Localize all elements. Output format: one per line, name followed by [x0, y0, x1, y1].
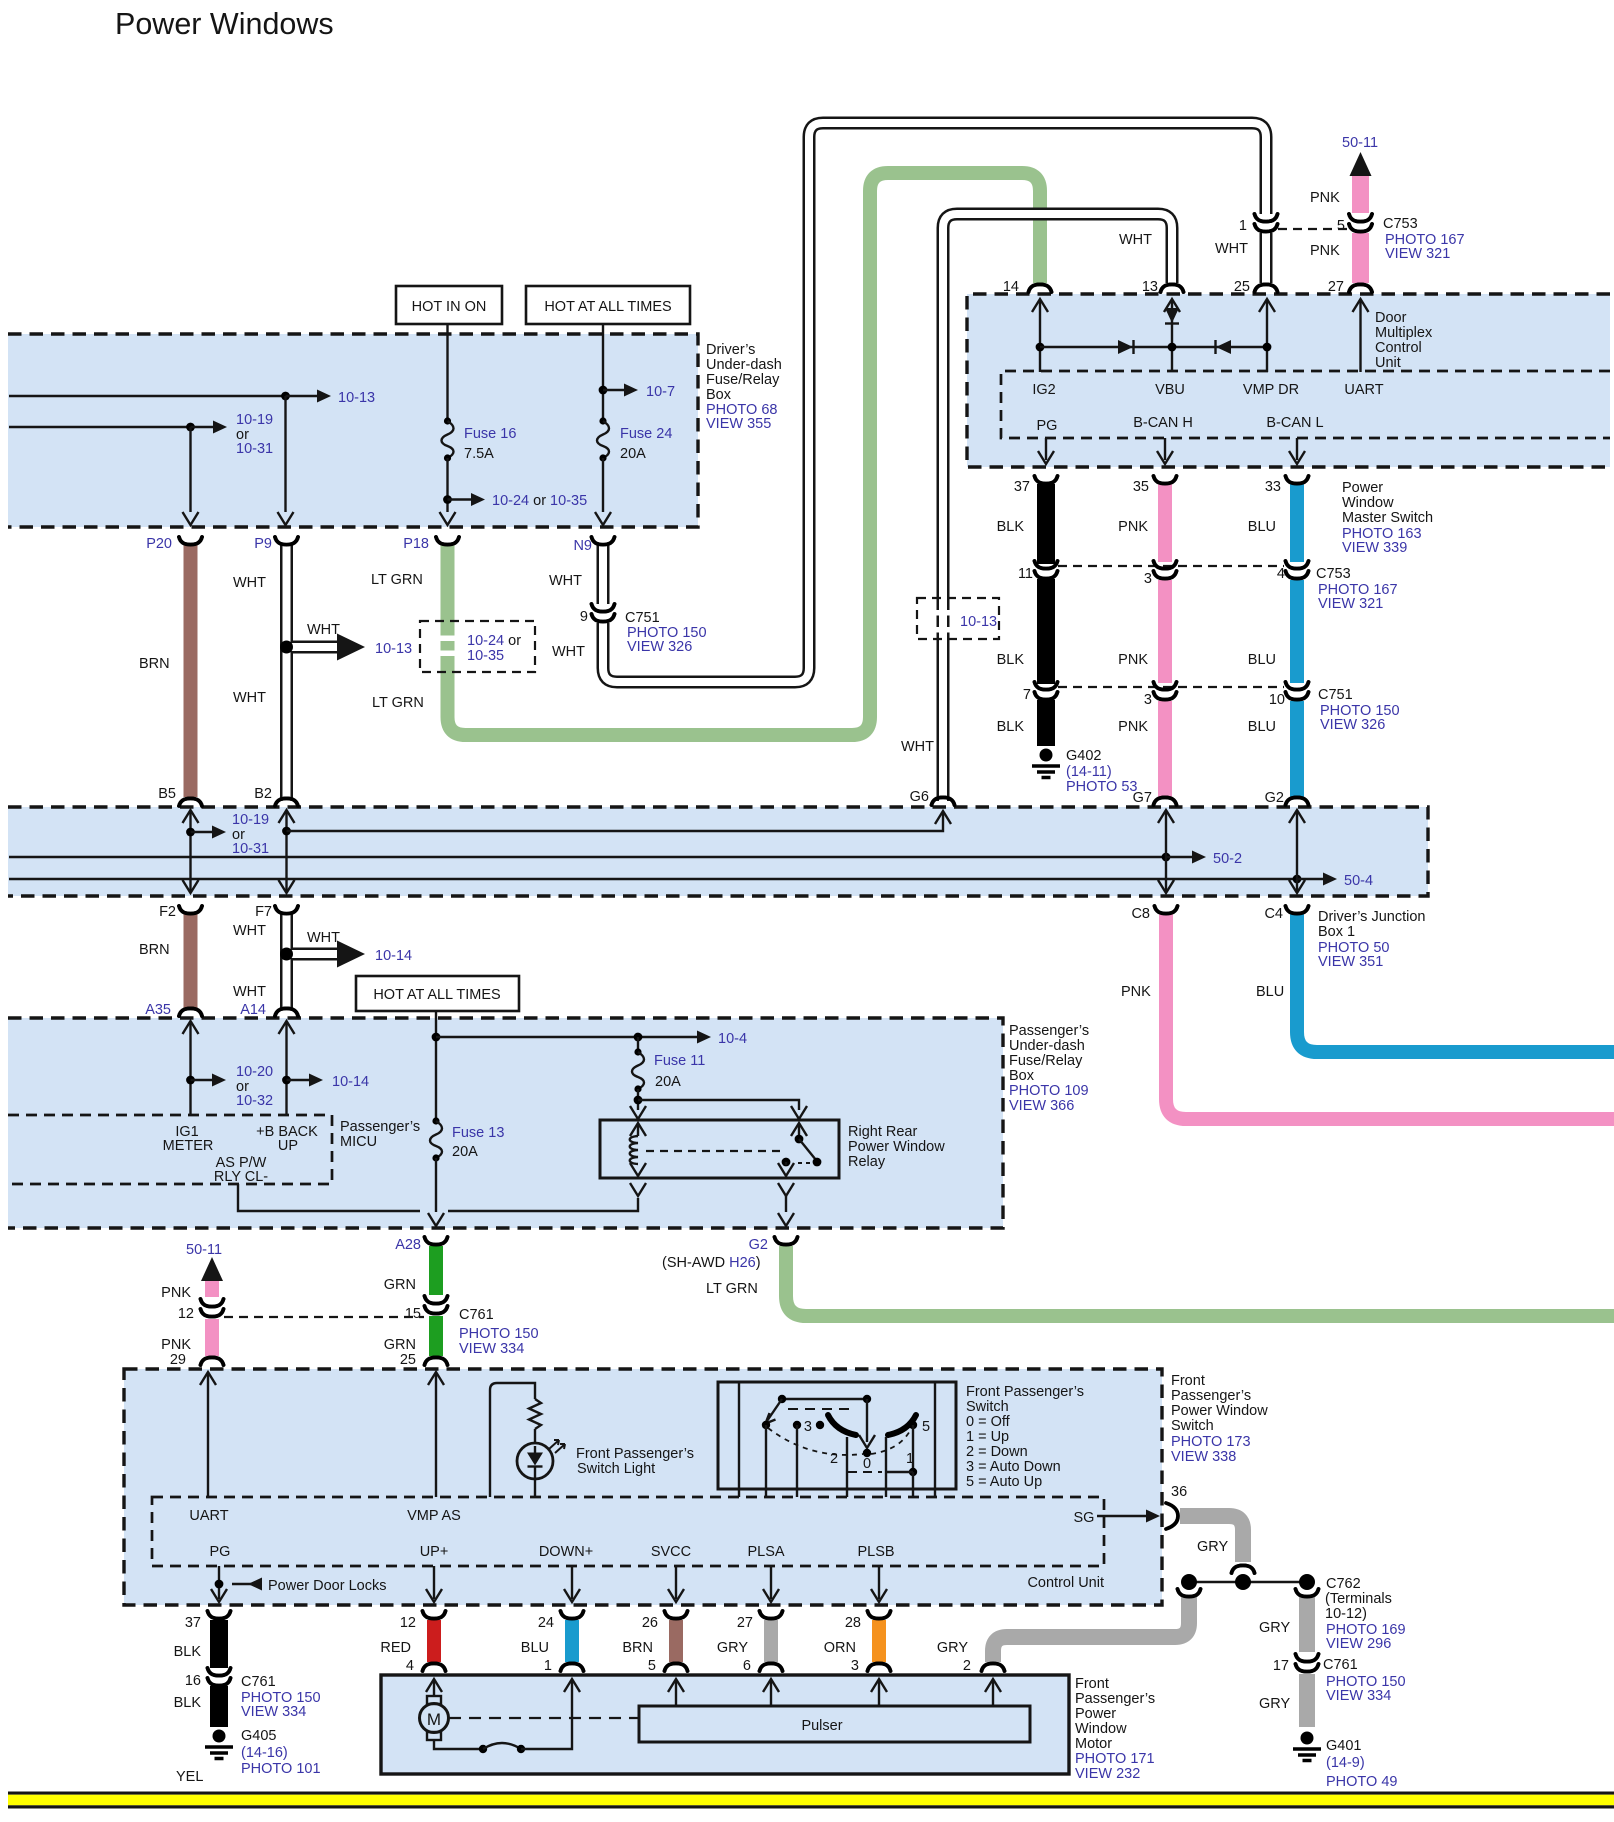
connector 11 C753 on BLK — [1018, 561, 1058, 582]
switch blade — [766, 1399, 783, 1424]
svg-text:BRN: BRN — [139, 656, 170, 672]
wire G2-C4 internal — [1289, 810, 1305, 893]
svg-text:C753: C753 — [1316, 566, 1351, 582]
svg-text:P20: P20 — [146, 536, 172, 552]
pin 35 — [1133, 476, 1177, 495]
svg-text:BLK: BLK — [174, 1695, 202, 1711]
svg-text:UP+: UP+ — [420, 1544, 449, 1560]
svg-text:WHT: WHT — [901, 739, 934, 755]
svg-text:VIEW 351: VIEW 351 — [1318, 954, 1383, 970]
svg-text:1 = Up: 1 = Up — [966, 1429, 1009, 1445]
svg-text:5 = Auto Up: 5 = Auto Up — [966, 1474, 1042, 1490]
svg-text:WHT: WHT — [1119, 232, 1152, 248]
wire BLK seg2 to G405 — [174, 1686, 219, 1727]
node C762 junction — [1181, 1574, 1406, 1652]
connector 12 C761 on PNK — [178, 1299, 224, 1322]
wire BRN F2-A35 — [139, 914, 202, 1018]
svg-text:PNK: PNK — [161, 1285, 191, 1301]
MICU pin labels — [163, 1124, 319, 1185]
svg-text:VIEW 296: VIEW 296 — [1326, 1636, 1391, 1652]
connector 16 C761 on BLK — [185, 1668, 321, 1720]
Passenger's Under-dash Fuse/Relay Box — [8, 1018, 1003, 1228]
svg-text:Window: Window — [1342, 495, 1394, 511]
svg-text:HOT IN ON: HOT IN ON — [412, 299, 487, 315]
Front Passenger's Power Window Switch box — [124, 1369, 1162, 1605]
pin 2 GRY cap — [937, 1640, 1005, 1674]
svg-text:RLY CL-: RLY CL- — [214, 1169, 268, 1185]
svg-text:Relay: Relay — [848, 1154, 886, 1170]
wire GRY C762 to motor pin 2 — [993, 1589, 1201, 1662]
svg-text:10-19: 10-19 — [236, 412, 273, 428]
svg-text:WHT: WHT — [307, 622, 340, 638]
pin P9 — [254, 536, 298, 552]
pin 24 / BLU wire — [521, 1611, 584, 1674]
label Door Multiplex Control Unit — [1375, 310, 1433, 371]
page break yellow bar — [8, 1792, 1614, 1809]
svg-text:10-13: 10-13 — [338, 390, 375, 406]
svg-text:Window: Window — [1075, 1721, 1127, 1737]
wire GRY C762 to C761 — [1259, 1589, 1319, 1652]
dashed link C753 row — [1058, 566, 1398, 612]
pin 36 — [1166, 1484, 1187, 1529]
svg-text:Power Window: Power Window — [848, 1139, 945, 1155]
svg-text:WHT: WHT — [1215, 241, 1248, 257]
svg-text:Fuse/Relay: Fuse/Relay — [706, 372, 780, 388]
switch light resistor — [529, 1399, 541, 1429]
svg-text:0 = Off: 0 = Off — [966, 1414, 1011, 1430]
svg-text:F2: F2 — [159, 904, 176, 920]
wire breaker to pin 1 — [521, 1679, 580, 1749]
control unit pin labels row1 — [189, 1508, 1094, 1526]
label Front Passenger's Power Window Switch — [1171, 1373, 1268, 1465]
svg-text:VMP AS: VMP AS — [407, 1508, 461, 1524]
connector 1 on WHT — [1215, 214, 1278, 257]
svg-text:29: 29 — [170, 1352, 186, 1368]
svg-text:PHOTO 53: PHOTO 53 — [1066, 779, 1137, 795]
svg-text:PG: PG — [1037, 418, 1058, 434]
wire fuse24 to N9 — [595, 458, 611, 525]
svg-text:C753: C753 — [1383, 216, 1418, 232]
bus wire 50-4 — [9, 873, 1373, 890]
motor circuit breaker — [479, 1743, 525, 1753]
pin 28 / ORN wire — [824, 1611, 891, 1674]
svg-text:A28: A28 — [395, 1237, 421, 1253]
svg-text:C4: C4 — [1264, 906, 1283, 922]
svg-text:PHOTO 150: PHOTO 150 — [459, 1326, 539, 1342]
svg-text:7: 7 — [1023, 687, 1031, 703]
svg-text:5: 5 — [648, 1658, 656, 1674]
fuse 16 7.5A — [442, 417, 517, 462]
wire BLK seg2 — [997, 579, 1046, 684]
diode bus line — [1040, 346, 1267, 348]
svg-text:BRN: BRN — [622, 1640, 653, 1656]
IG2 input wire — [1032, 299, 1056, 398]
svg-text:WHT: WHT — [307, 930, 340, 946]
svg-text:B2: B2 — [254, 786, 272, 802]
svg-text:UART: UART — [1344, 382, 1383, 398]
pin C4 — [1264, 906, 1308, 922]
svg-text:10-13: 10-13 — [960, 614, 997, 630]
svg-text:GRN: GRN — [384, 1277, 416, 1293]
svg-text:PNK: PNK — [1310, 190, 1340, 206]
pin 27 / GRY wire — [717, 1611, 783, 1674]
connector 5 C753 — [1337, 214, 1465, 262]
svg-text:Box: Box — [1009, 1068, 1035, 1084]
connector 15 C761 on GRN — [405, 1296, 539, 1357]
svg-text:DOWN+: DOWN+ — [539, 1544, 593, 1560]
svg-text:VIEW 232: VIEW 232 — [1075, 1766, 1140, 1782]
ground G402 — [1032, 748, 1137, 795]
svg-text:10-35: 10-35 — [467, 648, 504, 664]
pin row lower labels — [1037, 415, 1324, 434]
svg-text:Front Passenger’s: Front Passenger’s — [966, 1384, 1084, 1400]
svg-text:4: 4 — [406, 1658, 414, 1674]
svg-text:ORN: ORN — [824, 1640, 856, 1656]
svg-text:PHOTO 101: PHOTO 101 — [241, 1761, 321, 1777]
Passenger's MICU box — [8, 1115, 420, 1184]
svg-text:BLU: BLU — [1256, 984, 1284, 1000]
svg-text:C8: C8 — [1131, 906, 1150, 922]
Driver's Junction Box 1 — [8, 807, 1428, 896]
svg-text:Unit: Unit — [1375, 355, 1401, 371]
svg-text:Fuse 16: Fuse 16 — [464, 426, 516, 442]
svg-text:BLU: BLU — [1248, 719, 1276, 735]
svg-text:Passenger’s: Passenger’s — [340, 1119, 420, 1135]
svg-text:BLU: BLU — [521, 1640, 549, 1656]
svg-text:10-7: 10-7 — [646, 384, 675, 400]
svg-text:BLK: BLK — [997, 652, 1025, 668]
svg-text:9: 9 — [580, 609, 588, 625]
svg-text:Driver’s Junction: Driver’s Junction — [1318, 909, 1425, 925]
svg-text:10-14: 10-14 — [375, 948, 412, 964]
wire UP+ output — [426, 1566, 442, 1602]
label Driver's Junction Box 1 — [1318, 909, 1425, 970]
SG output arrow to pin 36 — [1097, 1510, 1160, 1523]
svg-text:VIEW 321: VIEW 321 — [1385, 246, 1450, 262]
svg-text:1: 1 — [544, 1658, 552, 1674]
svg-text:Box 1: Box 1 — [1318, 924, 1355, 940]
Door Multiplex Control Unit box — [967, 294, 1610, 467]
wire pulser to pin 2 — [985, 1679, 1001, 1706]
switch contacts — [762, 1421, 917, 1429]
svg-text:Box: Box — [706, 387, 732, 403]
pin 14 cap — [1003, 279, 1052, 295]
wire AS P/W RLY CL- to relay coil — [238, 1184, 638, 1211]
wire VMP AS up to pin 25 — [428, 1372, 444, 1497]
svg-text:VIEW 338: VIEW 338 — [1171, 1449, 1236, 1465]
svg-text:37: 37 — [185, 1615, 201, 1631]
svg-text:BLK: BLK — [997, 719, 1025, 735]
svg-text:37: 37 — [1014, 479, 1030, 495]
switch bottom links — [848, 1425, 917, 1476]
svg-text:GRY: GRY — [717, 1640, 748, 1656]
wire LT GRN P18 to Door MCU pin 14 — [371, 173, 1040, 735]
switch light branch wire — [490, 1383, 535, 1497]
svg-text:C761: C761 — [459, 1307, 494, 1323]
switch dashed bar — [788, 1408, 855, 1410]
svg-text:Switch Light: Switch Light — [577, 1461, 655, 1477]
svg-text:24: 24 — [538, 1615, 554, 1631]
svg-text:PHOTO 49: PHOTO 49 — [1326, 1774, 1397, 1790]
wire WHT to pin 25 — [1234, 231, 1278, 295]
wire fuse11 to relay — [630, 1089, 646, 1119]
svg-text:PHOTO 171: PHOTO 171 — [1075, 1751, 1155, 1767]
pin A28 — [395, 1237, 447, 1253]
wire HOT to Fuse 13 — [432, 1011, 441, 1121]
svg-text:50-4: 50-4 — [1344, 873, 1373, 889]
svg-text:20A: 20A — [620, 446, 646, 462]
svg-text:PNK: PNK — [1118, 719, 1148, 735]
B-CAN H output arrow — [1157, 438, 1173, 464]
switch selector dashed arc — [768, 1428, 911, 1455]
fuse F16 feed wire — [446, 324, 448, 421]
svg-text:Multiplex: Multiplex — [1375, 325, 1433, 341]
pin F7 — [255, 904, 298, 920]
svg-text:P9: P9 — [254, 536, 272, 552]
svg-text:VIEW 326: VIEW 326 — [627, 639, 692, 655]
svg-text:G405: G405 — [241, 1728, 276, 1744]
connector 9 C751 — [580, 604, 707, 655]
switch contact arc 1 — [888, 1415, 916, 1435]
svg-text:WHT: WHT — [549, 573, 582, 589]
svg-text:BLK: BLK — [997, 519, 1025, 535]
wire BLU C4 to right edge — [1256, 914, 1614, 1052]
svg-text:10: 10 — [1269, 692, 1285, 708]
svg-text:PNK: PNK — [161, 1337, 191, 1353]
wire pulser to pin 3 — [871, 1679, 887, 1706]
svg-text:Control Unit: Control Unit — [1027, 1575, 1104, 1591]
svg-text:4: 4 — [1277, 566, 1285, 582]
Driver's Under-dash Fuse/Relay Box — [8, 334, 698, 527]
svg-text:GRN: GRN — [384, 1337, 416, 1353]
svg-text:PHOTO 173: PHOTO 173 — [1171, 1434, 1251, 1450]
svg-text:20A: 20A — [655, 1074, 681, 1090]
svg-text:PLSB: PLSB — [857, 1544, 894, 1560]
label Front Passenger's Switch positions — [966, 1384, 1084, 1490]
wire PG output — [211, 1566, 227, 1602]
svg-text:0: 0 — [863, 1456, 871, 1472]
pin 37 / BLK wire to C761 — [174, 1611, 231, 1668]
wire GRY pin36 to C762 — [1180, 1516, 1255, 1573]
svg-text:GRY: GRY — [1259, 1696, 1290, 1712]
ground G401 — [1293, 1732, 1397, 1791]
svg-text:10-4: 10-4 — [718, 1031, 747, 1047]
wire WHT N9 upper segment — [549, 540, 603, 606]
connector 10 C751 on BLU — [1269, 682, 1309, 708]
PG output arrow — [1038, 438, 1054, 464]
svg-text:Power: Power — [1075, 1706, 1116, 1722]
wire LT GRN G2 to right edge — [706, 1246, 1614, 1316]
wire bus to 10-13 — [9, 390, 375, 407]
svg-text:G2: G2 — [1265, 790, 1284, 806]
svg-text:(14-16): (14-16) — [241, 1745, 288, 1761]
svg-text:VMP DR: VMP DR — [1243, 382, 1299, 398]
reference tag 10-24/10-35 on LT GRN — [420, 621, 535, 672]
relay mechanical link — [646, 1150, 786, 1152]
junction and arrow WHT to 10-14 — [280, 930, 412, 968]
svg-text:PNK: PNK — [1121, 984, 1151, 1000]
svg-text:20A: 20A — [452, 1144, 478, 1160]
svg-text:Front Passenger’s: Front Passenger’s — [576, 1446, 694, 1462]
switch position labels — [804, 1419, 930, 1472]
diode D2 — [1216, 340, 1232, 354]
fuse 11 20A — [632, 1048, 705, 1092]
wire WHT C751-9 loop to Door MCU pin 25 — [552, 123, 1266, 682]
svg-text:M: M — [427, 1710, 441, 1729]
svg-text:2: 2 — [963, 1658, 971, 1674]
svg-text:UART: UART — [189, 1508, 228, 1524]
Front Passenger's Power Window Motor box — [381, 1675, 1069, 1774]
reference tag 10-13 on WHT G6 wire — [917, 598, 999, 639]
svg-text:Fuse/Relay: Fuse/Relay — [1009, 1053, 1083, 1069]
svg-text:PG: PG — [210, 1544, 231, 1560]
svg-text:MICU: MICU — [340, 1134, 377, 1150]
svg-text:WHT: WHT — [233, 984, 266, 1000]
connector 4 C753 on BLU — [1277, 561, 1309, 582]
wire fuse16 to P18 — [440, 458, 588, 525]
switch terminal wires — [739, 1383, 935, 1497]
svg-text:10-20: 10-20 — [236, 1064, 273, 1080]
svg-text:2 = Down: 2 = Down — [966, 1444, 1028, 1460]
wire PLSA output — [763, 1566, 779, 1602]
svg-text:VIEW 334: VIEW 334 — [1326, 1688, 1391, 1704]
svg-text:GRY: GRY — [1259, 1620, 1290, 1636]
svg-text:Power Windows: Power Windows — [115, 7, 334, 41]
svg-text:10-12): 10-12) — [1325, 1606, 1367, 1622]
svg-text:VIEW 326: VIEW 326 — [1320, 717, 1385, 733]
svg-text:VIEW 339: VIEW 339 — [1342, 540, 1407, 556]
svg-text:G402: G402 — [1066, 748, 1101, 764]
svg-text:P18: P18 — [403, 536, 429, 552]
svg-text:VIEW 355: VIEW 355 — [706, 416, 771, 432]
label Passenger's Under-dash Fuse/Relay Box — [1009, 1023, 1089, 1114]
svg-text:VIEW 334: VIEW 334 — [459, 1341, 524, 1357]
svg-text:10-19: 10-19 — [232, 812, 269, 828]
svg-text:50-11: 50-11 — [1342, 135, 1378, 151]
wire PNK from 50-11 to pin 29 — [161, 1242, 223, 1301]
svg-text:Passenger’s: Passenger’s — [1171, 1388, 1251, 1404]
svg-text:A14: A14 — [240, 1002, 266, 1018]
motor mechanical link — [449, 1717, 639, 1719]
wire fuse11 to relay switch side — [638, 1100, 807, 1119]
svg-text:G2: G2 — [749, 1237, 768, 1253]
connector 17 C761 on GRY — [1273, 1654, 1406, 1704]
diode D1 — [1118, 340, 1134, 354]
svg-text:10-13: 10-13 — [375, 641, 412, 657]
connector 3 C751 on PNK — [1144, 682, 1177, 708]
svg-text:Under-dash: Under-dash — [1009, 1038, 1085, 1054]
svg-text:HOT AT ALL TIMES: HOT AT ALL TIMES — [544, 299, 671, 315]
wire fuse 11 column — [634, 1033, 643, 1052]
wire WHT F7-A14 — [233, 906, 298, 1018]
svg-text:C751: C751 — [625, 610, 660, 626]
svg-text:BLU: BLU — [1248, 519, 1276, 535]
svg-text:Motor: Motor — [1075, 1736, 1112, 1752]
svg-text:LT GRN: LT GRN — [372, 695, 424, 711]
svg-text:12: 12 — [400, 1615, 416, 1631]
svg-text:G401: G401 — [1326, 1738, 1361, 1754]
svg-text:F7: F7 — [255, 904, 272, 920]
svg-text:3: 3 — [1144, 692, 1152, 708]
wire pulser to pin 6 — [763, 1679, 779, 1706]
svg-text:BRN: BRN — [139, 942, 170, 958]
svg-text:10-32: 10-32 — [236, 1093, 273, 1109]
svg-text:17: 17 — [1273, 1658, 1289, 1674]
svg-text:B-CAN L: B-CAN L — [1266, 415, 1323, 431]
ground G405 — [176, 1728, 321, 1785]
wire PNK seg3 — [1118, 701, 1176, 806]
switch light LED lamp — [517, 1429, 553, 1497]
svg-text:PNK: PNK — [1118, 652, 1148, 668]
Right Rear Power Window Relay box — [600, 1120, 945, 1178]
relay output terminals — [630, 1183, 794, 1196]
svg-text:WHT: WHT — [233, 690, 266, 706]
svg-text:Passenger’s: Passenger’s — [1075, 1691, 1155, 1707]
svg-text:25: 25 — [400, 1352, 416, 1368]
wire relay to G2 — [778, 1196, 794, 1226]
svg-text:27: 27 — [737, 1615, 753, 1631]
svg-text:3 = Auto Down: 3 = Auto Down — [966, 1459, 1061, 1475]
B-CAN L output arrow — [1289, 438, 1305, 464]
wire BLU seg3 — [1248, 701, 1309, 806]
svg-text:LT GRN: LT GRN — [706, 1281, 758, 1297]
svg-text:(SH-AWD H26): (SH-AWD H26) — [662, 1255, 761, 1271]
wire PLSB output — [871, 1566, 887, 1602]
wire A14 to MICU — [279, 1021, 370, 1115]
wire B2-F7 internal — [279, 810, 295, 893]
svg-text:A35: A35 — [145, 1002, 171, 1018]
junction and arrow WHT to 10-13 — [280, 622, 412, 661]
switch contact arc 2 — [828, 1415, 856, 1435]
wire UART up to pin 29 — [200, 1372, 216, 1497]
wire WHT Door MCU pin13 to G6 — [901, 214, 1184, 805]
svg-text:Driver’s: Driver’s — [706, 342, 755, 358]
fuse F24 feed wire — [599, 324, 675, 421]
svg-text:3: 3 — [804, 1419, 812, 1435]
UART input wire — [1344, 299, 1383, 398]
svg-text:C751: C751 — [1318, 687, 1353, 703]
bus wire 50-2 — [9, 851, 1242, 868]
svg-text:50-11: 50-11 — [186, 1242, 222, 1258]
svg-text:UP: UP — [278, 1138, 298, 1154]
pin P18 — [403, 536, 459, 552]
wire pulser to pin 5 — [668, 1679, 684, 1706]
wire BLK pin37 seg1 — [997, 484, 1046, 564]
wire B2 to G6 internal — [282, 811, 951, 835]
svg-text:Power Window: Power Window — [1171, 1403, 1268, 1419]
svg-text:WHT: WHT — [552, 644, 585, 660]
svg-text:YEL: YEL — [176, 1769, 203, 1785]
svg-text:36: 36 — [1171, 1484, 1187, 1500]
svg-text:PLSA: PLSA — [747, 1544, 784, 1560]
svg-text:Control: Control — [1375, 340, 1422, 356]
svg-text:GRY: GRY — [937, 1640, 968, 1656]
svg-text:33: 33 — [1265, 479, 1281, 495]
svg-text:VIEW 366: VIEW 366 — [1009, 1098, 1074, 1114]
svg-text:(14-11): (14-11) — [1066, 764, 1112, 780]
svg-text:5: 5 — [1337, 218, 1345, 234]
svg-text:HOT AT ALL TIMES: HOT AT ALL TIMES — [373, 987, 500, 1003]
svg-text:LT GRN: LT GRN — [371, 572, 423, 588]
svg-text:Front: Front — [1171, 1373, 1205, 1389]
switch common bar — [778, 1395, 871, 1403]
svg-text:G6: G6 — [910, 789, 929, 805]
svg-text:RED: RED — [380, 1640, 411, 1656]
wire BLU seg2 — [1248, 580, 1297, 683]
svg-text:SVCC: SVCC — [651, 1544, 691, 1560]
svg-text:WHT: WHT — [233, 923, 266, 939]
svg-text:26: 26 — [642, 1615, 658, 1631]
